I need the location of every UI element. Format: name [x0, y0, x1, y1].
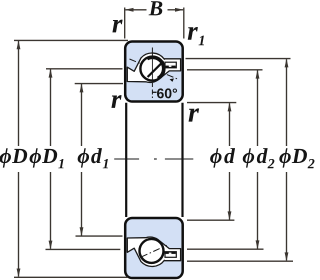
label r1 top-right — [188, 27, 198, 40]
label phiD1 — [30, 148, 58, 167]
contact-axis dash-dot through bottom ball — [141, 245, 167, 257]
phid dimension line — [229, 103, 231, 146]
phid1 arrowheads — [80, 84, 84, 93]
ball (top) — [140, 57, 164, 81]
phiD2 extension line top — [186, 58, 291, 60]
phiD dimension line — [18, 41, 20, 146]
B arrowheads — [125, 8, 134, 12]
label phid2 — [243, 148, 268, 167]
phid2 extension line bottom — [187, 248, 264, 250]
ball contact chord — [148, 61, 164, 77]
phiD1 extension line top — [46, 68, 123, 70]
ball (bottom) — [140, 239, 164, 263]
raceway gap between rings (top) — [127, 53, 180, 82]
cage cross-section (bottom) — [165, 252, 176, 258]
phid1 dimension line — [81, 84, 83, 146]
phiD arrowheads — [17, 40, 21, 49]
phiD2 arrowheads — [285, 59, 289, 68]
radial dash-dot centerline through top ball — [151, 48, 153, 56]
label r top-left — [112, 20, 122, 33]
cage cross-section (top) — [165, 62, 176, 68]
phid extension line top — [187, 102, 236, 104]
label 60 deg — [157, 88, 177, 98]
label phid — [210, 148, 235, 167]
phid2 dimension line — [257, 70, 259, 146]
label r mid-left — [111, 95, 121, 108]
phiD1 arrowheads — [49, 69, 53, 78]
B extension line left — [124, 8, 126, 39]
phiD extension line bottom — [14, 276, 128, 278]
contact-angle arrowhead — [170, 78, 174, 82]
phid1 extension line top — [75, 83, 123, 85]
outer+inner ring body (bottom) — [125, 218, 183, 278]
raceway gap between rings (bottom) — [127, 237, 180, 266]
label phiD — [0, 148, 27, 167]
phiD2 extension line bottom — [187, 260, 293, 262]
label phid1 — [78, 148, 102, 167]
contact-angle reference tick — [152, 91, 156, 93]
phiD1 extension line bottom — [46, 248, 121, 250]
phid extension line bottom — [187, 219, 234, 221]
top bearing cross-section block — [125, 42, 183, 102]
B dimension line — [125, 9, 146, 11]
phiD1 dimension line — [50, 69, 52, 146]
phid2 extension line top — [187, 69, 263, 71]
phiD2 dimension line — [286, 59, 288, 146]
bore silhouette line left — [125, 103, 127, 217]
bearing axis centerline (dash-dot) — [114, 158, 139, 160]
ball raceway shoulder arc — [148, 58, 164, 78]
label B — [149, 1, 163, 15]
phid1 extension line bottom — [76, 235, 123, 237]
contact-axis dash-dot line at 60 deg — [130, 59, 178, 79]
phid2 arrowheads — [256, 70, 260, 79]
bore silhouette line right — [181, 103, 183, 217]
B extension line right — [183, 8, 185, 39]
label r mid-right — [189, 108, 200, 121]
outer+inner ring body (top) — [125, 42, 183, 102]
phiD extension line top — [14, 39, 128, 41]
phid arrowheads — [228, 103, 232, 112]
bottom bearing cross-section block (mirrored) — [125, 218, 183, 278]
label phiD2 — [279, 148, 307, 167]
